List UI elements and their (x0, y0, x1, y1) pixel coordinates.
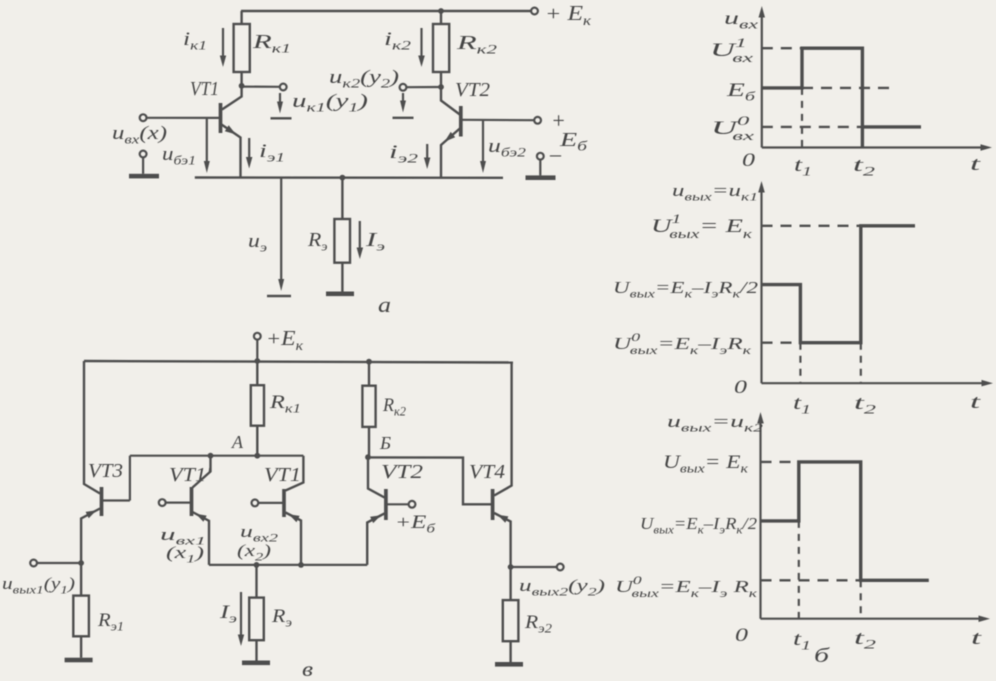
svg-text:VT2: VT2 (455, 79, 490, 101)
graph1 dashed level U0vx (762, 126, 863, 128)
node: VT1-prime collector junction (208, 453, 214, 459)
ground under Re1 (65, 658, 93, 663)
transistor VT1 (v) collector lead (286, 456, 304, 491)
graph2 label t2 (854, 393, 877, 417)
wire: output2 tap (511, 566, 557, 568)
label Re2 (524, 612, 553, 636)
wire: +Ek stem (circuit v) (256, 340, 258, 361)
label Re (circuit a) (307, 229, 328, 254)
label u_vx(x) (112, 123, 167, 147)
label node A (231, 432, 244, 452)
label VT3 (88, 460, 123, 482)
graph1 dashed t1 vertical (801, 88, 803, 148)
terminal -Eb (circuit a) (537, 153, 544, 160)
graph3 label t (971, 628, 982, 649)
svg-text:t: t (971, 628, 982, 649)
label VT1 (circuit a) (190, 78, 219, 100)
label u_vx2 line2 (237, 541, 271, 564)
transistor VT2 emitter lead (441, 129, 460, 178)
graph3 label u_vyx=u_k2 (667, 412, 763, 435)
ground under -Eb terminal (526, 160, 556, 180)
wire: VT2 base lead to +Eb (462, 119, 534, 122)
graph3 label b (sub-figure) (814, 645, 830, 667)
graph2 dashed t2 vertical (860, 343, 862, 384)
svg-text:0: 0 (735, 625, 749, 646)
label Eb (circuit a) (559, 129, 589, 155)
svg-text:VT3: VT3 (88, 460, 123, 482)
graph1 waveform (762, 48, 921, 147)
transistor VT2 collector lead (441, 87, 460, 115)
graph1 label u_vx (724, 8, 758, 32)
transistor VT3 base bar (100, 487, 104, 516)
transistor VT4 emitter lead (494, 513, 510, 567)
node B junction (365, 454, 371, 460)
wire: VT2 (v) base lead (388, 503, 409, 505)
graph1 label Eb (725, 80, 755, 104)
arrow u_e (278, 178, 284, 291)
label VT2 (circuit v) (381, 461, 423, 483)
wire: node B rail to VT4 base (368, 457, 491, 504)
terminal u_vx(x) input (140, 114, 147, 121)
graph3 dashed t2 vertical (860, 580, 862, 618)
label VT2 (circuit a) (455, 79, 490, 101)
label u_be2 (488, 136, 527, 160)
svg-text:U1вых= Eк: U1вых= Eк (651, 211, 753, 241)
node: rail junction for Rk2 column (438, 8, 444, 14)
graph2 dashed level bottom (762, 342, 801, 344)
graph1 label t2 (853, 155, 876, 179)
svg-text:VT1: VT1 (190, 78, 219, 100)
wire: u_k2 terminal to VT2 collector (407, 86, 442, 88)
graph3 y-axis (757, 412, 764, 619)
graph3 dashed t1 vertical (798, 521, 800, 619)
transistor VT2 (v) collector lead (368, 457, 384, 497)
wire: emitter rail (circuit a) (195, 176, 503, 179)
label u_e (248, 231, 267, 255)
svg-text:t: t (970, 154, 981, 175)
label I_e (circuit v) (219, 602, 238, 626)
label Re (circuit v) (271, 606, 292, 630)
graph3 x-axis (761, 616, 991, 623)
graph2 label u_vyx=u_k1 (672, 181, 758, 204)
graph2 label U1_vyx=Ek (651, 211, 753, 241)
graph2 label 0 (734, 377, 748, 398)
resistor Rk1 (circuit v) (251, 361, 264, 456)
graph3 label U0_vyx=Ek-IeRk (615, 573, 758, 600)
wire: VT1 base lead (147, 117, 220, 119)
label i_e2 (389, 142, 419, 166)
node: VT2 collector junction (438, 84, 444, 90)
transistor VT1 (v) base bar (282, 489, 286, 517)
label i_k1 (183, 29, 207, 53)
terminal +Ek (circuit v) (254, 333, 261, 340)
transistor VT1 collector lead (222, 86, 242, 110)
label +Ek (circuit a) (545, 1, 592, 29)
graph1 y-axis (759, 6, 766, 148)
graph3 label t1 (793, 629, 811, 653)
bar under u_e arrow (267, 295, 291, 297)
graph1 label U0_vx (711, 113, 754, 143)
ground under input terminal (129, 151, 159, 179)
transistor VT3 collector lead (84, 361, 100, 494)
label Re1 (97, 610, 124, 634)
svg-text:VT2: VT2 (381, 461, 423, 483)
terminal u_vx2 input (252, 500, 259, 507)
label Rk2 (circuit a) (455, 32, 497, 57)
graph3 label 0 (735, 625, 749, 646)
node: VT1 emitter junction (v) (298, 562, 304, 568)
resistor Rk2 (circuit a) (433, 11, 449, 87)
resistor Re (circuit a) (334, 178, 350, 292)
graph3 label U_vyx=Ek (663, 452, 749, 476)
label VT1-prime (169, 464, 212, 486)
graph2 label U0_vyx=Ek-IeRk (613, 330, 752, 357)
label Rk1 (circuit a) (251, 31, 291, 56)
current arrow i_e1 (246, 138, 253, 169)
transistor VT3 emitter lead (81, 509, 100, 564)
ground under Re (circuit a) (326, 292, 354, 297)
svg-text:VT1: VT1 (264, 464, 301, 486)
node: emitter rail junction (340, 175, 346, 181)
terminal u_k1(y1) (280, 84, 287, 91)
transistor VT1-prime base bar (190, 487, 194, 516)
transistor VT2 (v) base bar (384, 489, 388, 520)
label u_vyx1(y1) (2, 574, 75, 597)
label u_vx2 line1 (240, 522, 278, 545)
label +Eb (circuit v) (395, 512, 436, 536)
terminal +Eb (circuit v) (409, 501, 416, 508)
label Rk2 (circuit v) (382, 395, 406, 419)
wire: VT1-prime base lead (166, 502, 191, 504)
current arrow i_k2 (418, 28, 425, 67)
node: Re tap junction (v) (254, 562, 260, 568)
label Rk1 (circuit v) (269, 392, 301, 416)
graph3 label t2 (854, 628, 877, 652)
graph3 dashed level Ek (761, 461, 799, 463)
current arrow I_e (circuit v) (238, 592, 244, 646)
svg-text:VT4: VT4 (469, 461, 505, 483)
node A junction (254, 453, 260, 459)
label - (Eb minus) (549, 141, 562, 166)
transistor VT2 (v) emitter lead (367, 514, 384, 565)
graph2 waveform (762, 226, 916, 343)
current arrow i_e2 (424, 144, 431, 169)
ground under Re2 (495, 662, 523, 667)
terminal +Eb (circuit a) (534, 117, 541, 124)
arrow u_be2 (480, 121, 486, 173)
node: output1 junction (78, 560, 84, 566)
label u_k1(y1) (292, 91, 368, 115)
graph2 label t (970, 392, 981, 413)
current arrow I_e (circuit a) (357, 221, 364, 259)
terminal u_vyx1(y1) (30, 560, 37, 567)
svg-text:–: – (549, 141, 562, 166)
svg-text:U0вых=Eк–Iэ Rк: U0вых=Eк–Iэ Rк (615, 573, 758, 600)
svg-text:uвх(x): uвх(x) (112, 123, 167, 147)
label VT4 (469, 461, 505, 483)
common bar under u_k1 (271, 117, 292, 119)
label v (sub-figure) (302, 657, 313, 681)
label +Ek (circuit v) (266, 326, 303, 354)
svg-text:U0вых=Eк–IэRк: U0вых=Eк–IэRк (613, 330, 752, 357)
wire: node A rail (130, 455, 304, 457)
transistor VT1 (v) emitter lead (286, 513, 302, 565)
graph1 dashed level Eb after t1 (802, 87, 896, 89)
label i_e1 (259, 141, 285, 165)
svg-text:t: t (970, 392, 981, 413)
graph1 x-axis (762, 144, 992, 151)
resistor Re1 (73, 563, 89, 658)
wire: collector tap to u_k1 terminal (242, 85, 280, 87)
graph2 dashed t1 vertical (799, 343, 801, 384)
label u_k2(y2) (329, 67, 399, 91)
node: rail-Rk1 junction (v) (254, 358, 260, 364)
wire: common emitter rail (circuit v) (209, 564, 367, 566)
label VT1 (circuit v) (264, 464, 301, 486)
node: rail-Rk2 junction (v) (366, 359, 372, 365)
svg-text:б: б (814, 645, 830, 667)
graph3 dashed level bottom (761, 579, 861, 581)
current arrow i_k1 (220, 28, 226, 67)
label u_vx1 line1 (160, 525, 206, 548)
terminal u_vx1 input (159, 499, 166, 506)
transistor VT1 emitter lead (222, 125, 241, 178)
transistor VT1-prime collector lead (193, 456, 211, 488)
label u_vyx2(y2) (519, 576, 605, 599)
svg-text:0: 0 (734, 377, 748, 398)
label + (Eb plus) (551, 108, 566, 133)
arrow u_be1 (204, 119, 210, 173)
ground under Re (circuit v) (242, 661, 270, 666)
graph2 x-axis (762, 380, 994, 387)
label u_vx1 line2 (166, 543, 205, 566)
transistor VT4 collector lead (494, 363, 511, 496)
terminal +Ek (circuit a) (531, 8, 538, 15)
label node B (379, 433, 391, 453)
label I_e (circuit a) (364, 229, 385, 254)
transistor VT1-prime emitter lead (193, 512, 210, 565)
terminal u_k2(y2) (400, 84, 407, 91)
node: output2 junction (508, 564, 514, 570)
node: VT1 collector junction (239, 83, 245, 89)
wire: top rail (circuit v) (84, 361, 513, 363)
svg-text:A: A (231, 432, 244, 452)
svg-text:0: 0 (742, 150, 756, 171)
label a (sub-figure) (378, 292, 391, 317)
resistor Re2 (503, 567, 519, 662)
graph2 label t1 (793, 393, 811, 417)
svg-text:а: а (378, 292, 391, 317)
graph3 label U_vyx=Ek-IeRk/2 (640, 514, 758, 537)
graph1 label 0 (742, 150, 756, 171)
transistor VT2 base bar (459, 106, 463, 137)
wire: output1 tap (37, 562, 81, 564)
wire: +Ek supply rail (circuit a) (241, 10, 531, 12)
transistor VT4 base bar (491, 489, 495, 520)
label i_k2 (384, 29, 412, 53)
graph2 label U_vyx=Ek-IeRk/2 (613, 278, 759, 301)
graph2 dashed level Ek (762, 225, 861, 227)
resistor Re (circuit v) (249, 565, 264, 661)
arrow u_k1 to common (277, 93, 283, 114)
label u_be1 (162, 144, 196, 168)
arrow u_k2 to common (400, 93, 406, 113)
wire: node A to VT3 base (102, 456, 130, 501)
svg-text:Б: Б (379, 433, 391, 453)
transistor VT1 base bar (219, 103, 223, 133)
resistor Rk2 (circuit v) (362, 362, 375, 457)
graph2 y-axis (758, 181, 765, 383)
wire: VT1 (v) base lead (258, 502, 283, 504)
graph1 label U1_vx (710, 35, 753, 65)
svg-text:в: в (302, 657, 313, 681)
terminal u_vyx2(y2) (557, 564, 564, 571)
common bar under u_k2 (393, 117, 414, 119)
graph1 label t1 (794, 155, 812, 179)
resistor Rk1 (circuit a) (234, 11, 250, 86)
svg-text:U0вх: U0вх (711, 113, 754, 143)
graph1 label t (970, 154, 981, 175)
svg-text:Uвых= Eк: Uвых= Eк (663, 452, 749, 476)
graph1 dashed level U1vx (762, 47, 802, 49)
graph3 waveform (761, 462, 929, 580)
